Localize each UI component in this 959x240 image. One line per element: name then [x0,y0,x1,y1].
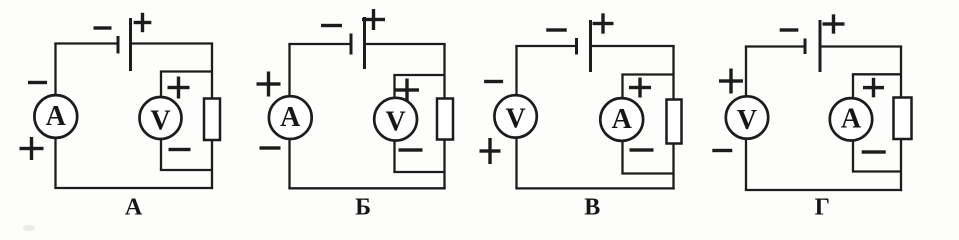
svg-text:А: А [125,194,143,220]
svg-text:V: V [150,105,170,136]
svg-text:A: A [612,104,633,135]
svg-text:Г: Г [815,194,830,220]
svg-text:В: В [584,195,600,221]
svg-text:A: A [841,104,862,135]
svg-text:V: V [505,104,525,135]
svg-text:Б: Б [355,195,371,221]
svg-text:A: A [280,102,301,133]
svg-text:V: V [737,105,757,136]
svg-text:A: A [46,101,67,132]
svg-text:V: V [385,107,405,138]
